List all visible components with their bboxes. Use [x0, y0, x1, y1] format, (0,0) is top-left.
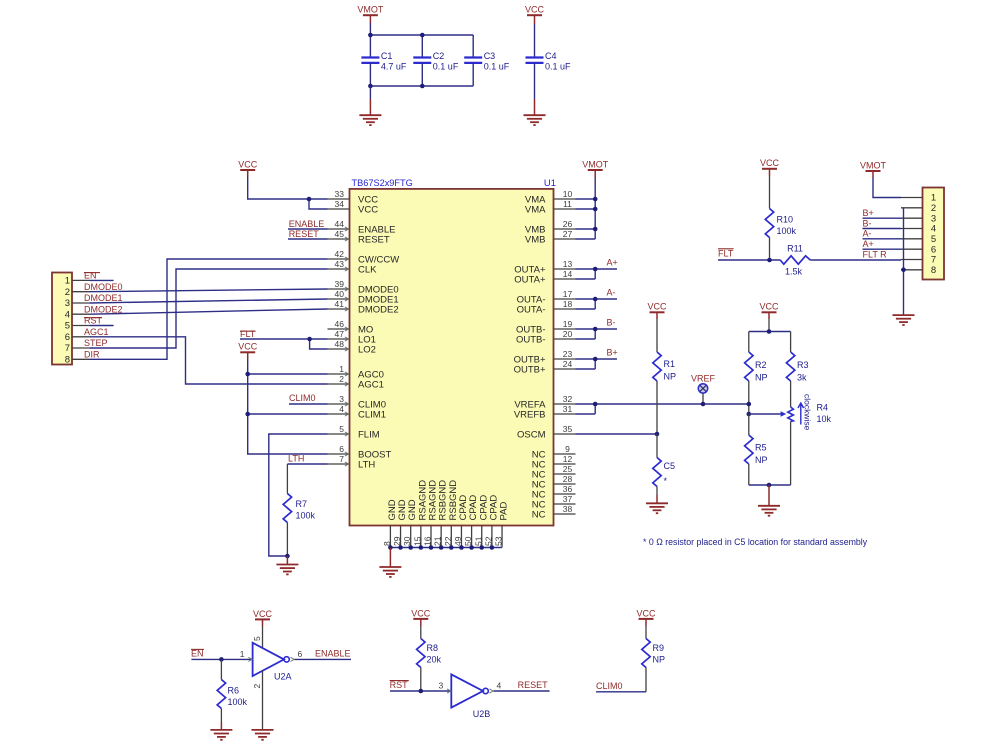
net label ENABLE at pin 44 [288, 219, 328, 229]
junction top rail at C2 [420, 33, 425, 38]
svg-text:33: 33 [335, 189, 345, 199]
ground below motor connector [893, 315, 915, 325]
svg-text:EN: EN [191, 648, 204, 658]
svg-text:3: 3 [65, 298, 70, 309]
svg-text:48: 48 [335, 339, 345, 349]
net label A+ wires OUTA+ pins 13/14 [576, 258, 618, 279]
svg-text:18: 18 [563, 299, 573, 309]
svg-text:5: 5 [252, 636, 262, 641]
net label FLT R motor pin 7 [863, 249, 888, 259]
svg-text:FLT: FLT [718, 248, 734, 258]
net label RST with wire (header pin 5) [84, 316, 114, 326]
svg-text:R6: R6 [228, 686, 240, 696]
net label FLT with wire to pins 47/48 [240, 329, 328, 349]
power flag VCC (U2A) [253, 609, 273, 620]
svg-text:U2A: U2A [274, 672, 292, 682]
svg-text:RESET: RESET [518, 680, 549, 690]
wire ground bus to ground [389, 548, 391, 568]
junction FLT R10 R11 [767, 258, 772, 263]
junction VCC pins 33/34 [307, 197, 312, 202]
svg-text:53: 53 [494, 536, 504, 546]
junction VREFA pin 32 [593, 402, 598, 407]
ground below U2A [252, 730, 274, 740]
svg-text:AGC1: AGC1 [358, 379, 384, 390]
svg-text:8: 8 [65, 355, 70, 366]
net label RESET at pin 45 [288, 229, 328, 239]
power flag VCC (AGC0/CLIM1/BOOST) [238, 342, 258, 353]
svg-text:RST: RST [84, 316, 103, 326]
svg-text:U1: U1 [544, 178, 556, 189]
svg-text:6: 6 [298, 649, 303, 659]
junction FLT pins 47/48 [307, 337, 312, 342]
svg-text:20k: 20k [427, 654, 442, 664]
net flag VREF [691, 373, 716, 404]
svg-text:3: 3 [339, 394, 344, 404]
svg-text:45: 45 [335, 229, 345, 239]
junction VMB pin 26 [593, 227, 598, 232]
svg-text:*: * [664, 476, 668, 486]
junction R2 wiper net [747, 412, 752, 417]
net label RST with wire to U2B input [390, 680, 452, 691]
svg-text:15: 15 [412, 536, 422, 546]
resistor R10 100k [765, 169, 796, 260]
svg-text:B+: B+ [607, 348, 618, 358]
svg-text:38: 38 [563, 504, 573, 514]
junction bottom rail at C1 [368, 84, 373, 89]
resistor R9 NP [642, 619, 665, 692]
svg-text:49: 49 [453, 536, 463, 546]
svg-text:R5: R5 [755, 443, 767, 453]
power flag VCC (top) [525, 5, 545, 16]
svg-text:CLIM0: CLIM0 [289, 393, 316, 403]
svg-text:LTH: LTH [288, 454, 304, 464]
wire motor pin 2 to ground net [903, 208, 905, 315]
svg-text:R4: R4 [817, 403, 829, 413]
svg-text:R1: R1 [664, 359, 676, 369]
junction VCC AGC0 [245, 372, 250, 377]
junction top rail at C1 [368, 33, 373, 38]
IC U1 TB67S2x9FTG body [350, 178, 557, 526]
svg-text:42: 42 [335, 249, 345, 259]
svg-text:FLT R: FLT R [863, 249, 888, 259]
svg-text:0.1 uF: 0.1 uF [484, 61, 510, 71]
wire U2A pin 2 to ground [252, 671, 263, 730]
ground below R6 [210, 730, 232, 740]
resistor R1 NP (VCC to OSCM) [653, 312, 676, 434]
svg-text:46: 46 [335, 319, 345, 329]
svg-text:A+: A+ [863, 239, 874, 249]
svg-text:CLIM0: CLIM0 [596, 681, 623, 691]
svg-text:VMA: VMA [525, 204, 546, 215]
svg-text:6: 6 [65, 332, 70, 343]
wire OSCM pin 35 [576, 433, 658, 435]
junction VCC CLIM1 [245, 412, 250, 417]
svg-text:2: 2 [339, 374, 344, 384]
svg-text:43: 43 [335, 259, 345, 269]
svg-text:OSCM: OSCM [517, 429, 546, 440]
svg-text:EN: EN [84, 271, 97, 281]
svg-text:A+: A+ [607, 258, 618, 268]
net label A- motor pin 5 [863, 229, 902, 239]
svg-text:* 0 Ω resistor placed in C5 lo: * 0 Ω resistor placed in C5 location for… [643, 537, 868, 547]
note 0 ohm resistor [643, 537, 868, 547]
svg-text:RST: RST [390, 680, 409, 690]
junction VREF on net [701, 402, 706, 407]
svg-text:41: 41 [335, 299, 345, 309]
resistor R5 NP [745, 414, 768, 485]
svg-text:RESET: RESET [358, 234, 390, 245]
svg-text:FLIM: FLIM [358, 429, 380, 440]
net label B+ wires OUTB+ pins 23/24 [576, 348, 618, 369]
svg-text:32: 32 [563, 394, 573, 404]
svg-text:52: 52 [483, 536, 493, 546]
svg-text:A-: A- [863, 229, 872, 239]
svg-text:100k: 100k [296, 511, 316, 521]
svg-text:0.1 uF: 0.1 uF [433, 61, 459, 71]
svg-text:clockwise: clockwise [803, 394, 813, 431]
net label EN with wire to U2A input [191, 648, 253, 659]
power flag VCC (IC pins 33/34) [238, 159, 258, 170]
svg-text:VREF: VREF [691, 373, 716, 383]
net label CLIM0 at pin 3 [289, 393, 328, 404]
power flag VCC (R10 pullup) [760, 158, 780, 169]
net label A- wires OUTA- pins 17/18 [576, 288, 618, 309]
svg-text:B+: B+ [863, 208, 874, 218]
svg-text:2: 2 [65, 287, 70, 298]
svg-text:VCC: VCC [647, 302, 667, 312]
ground below R7 [276, 565, 298, 575]
svg-text:21: 21 [433, 536, 443, 546]
svg-text:51: 51 [473, 536, 483, 546]
svg-text:DIR: DIR [84, 350, 100, 360]
wire IC ground bus [388, 545, 502, 550]
svg-text:3k: 3k [797, 373, 807, 383]
wire FLIM to ground net [269, 434, 328, 556]
IC U1 right pins [514, 189, 576, 520]
svg-text:DMODE1: DMODE1 [84, 293, 123, 303]
svg-text:24: 24 [563, 359, 573, 369]
resistor R11 1.5k [780, 244, 810, 277]
capacitor C3 [464, 51, 510, 71]
svg-text:50: 50 [463, 536, 473, 546]
svg-text:2: 2 [931, 203, 936, 214]
svg-text:OUTB-: OUTB- [516, 334, 546, 345]
connector pins [52, 273, 90, 366]
svg-text:NC: NC [532, 509, 546, 520]
svg-text:5: 5 [339, 424, 344, 434]
svg-text:C5: C5 [664, 461, 676, 471]
svg-text:12: 12 [563, 454, 573, 464]
svg-text:14: 14 [563, 269, 573, 279]
junction divider top rail [767, 329, 772, 334]
wire VCC to pins 33/34 [248, 170, 328, 209]
net label CLIM0 with wire to R9 [596, 681, 646, 692]
svg-text:VCC: VCC [238, 159, 258, 169]
junction VMA pin 11 [593, 207, 598, 212]
wire DMODE2 header pin 4 to IC pin 41 [84, 304, 328, 314]
svg-text:R2: R2 [755, 360, 767, 370]
wire VCC to C4 [534, 15, 536, 57]
svg-text:22: 22 [443, 536, 453, 546]
wire DMODE0 header pin 2 to IC pin 39 [84, 282, 328, 292]
wire VCC to AGC0 CLIM1 BOOST pins [248, 352, 328, 454]
ground below C1 [359, 115, 381, 125]
junction RST R8 [419, 689, 424, 694]
svg-text:4: 4 [65, 309, 70, 320]
svg-text:VCC: VCC [525, 5, 545, 15]
svg-text:35: 35 [563, 424, 573, 434]
svg-text:13: 13 [563, 259, 573, 269]
svg-text:1.5k: 1.5k [785, 266, 803, 276]
resistor R2 NP [745, 332, 768, 415]
svg-text:VREFB: VREFB [514, 409, 546, 420]
svg-text:100k: 100k [777, 226, 797, 236]
svg-text:B-: B- [863, 218, 872, 228]
svg-text:NP: NP [755, 373, 768, 383]
svg-text:A-: A- [607, 288, 616, 298]
svg-text:C3: C3 [484, 51, 496, 61]
svg-text:VCC: VCC [759, 302, 779, 312]
wire C4 to ground [534, 63, 536, 115]
svg-text:10k: 10k [817, 414, 832, 424]
net label B- wires OUTB- pins 19/20 [576, 318, 618, 339]
wire divider rail to ground [768, 485, 770, 506]
svg-text:NP: NP [664, 372, 677, 382]
wire DMODE1 header pin 3 to IC pin 40 [84, 293, 328, 303]
svg-text:LTH: LTH [358, 459, 375, 470]
wire DIR header pin 8 to IC pin 42 CW/CCW [84, 259, 328, 360]
power flag VCC (R9) [636, 608, 656, 619]
wire bottom capacitor rail [370, 63, 473, 86]
svg-text:19: 19 [563, 319, 573, 329]
resistor R8 20k [417, 619, 442, 691]
svg-text:R8: R8 [427, 643, 439, 653]
wire R11 to motor connector pin 7 FLT_R [810, 259, 901, 261]
svg-text:5: 5 [931, 234, 936, 245]
svg-text:36: 36 [563, 484, 573, 494]
power flag VMOT (top) [357, 5, 384, 16]
resistor C5 (0 ohm location) [653, 434, 675, 503]
svg-text:VCC: VCC [411, 608, 431, 618]
svg-text:C2: C2 [433, 51, 445, 61]
svg-text:29: 29 [392, 536, 402, 546]
power flag VCC (R8) [411, 608, 431, 619]
junction VMA pin 10 [593, 197, 598, 202]
power flag VCC (R1 pullup) [647, 302, 667, 313]
inverter U2A [240, 643, 303, 682]
svg-text:30: 30 [402, 536, 412, 546]
wire U2B output RESET [494, 680, 550, 691]
junction R7 ground [285, 554, 290, 559]
svg-text:OUTA+: OUTA+ [514, 274, 546, 285]
capacitor C2 [413, 51, 459, 71]
svg-text:R11: R11 [787, 244, 803, 254]
svg-text:4: 4 [339, 404, 344, 414]
wire STEP header pin 7 to IC pin 43 CLK [84, 269, 328, 348]
svg-text:40: 40 [335, 289, 345, 299]
svg-text:16: 16 [423, 536, 433, 546]
junction OSCM R1 C5 [655, 432, 660, 437]
svg-text:31: 31 [563, 404, 573, 414]
motor connector 1x8 [901, 188, 944, 280]
wire VCC to divider top rail [749, 312, 791, 331]
svg-text:0.1 uF: 0.1 uF [545, 61, 571, 71]
svg-text:1: 1 [240, 649, 245, 659]
power flag VMOT (VMA/VMB pins) [582, 159, 609, 170]
wire VMOT to motor pin 1 [873, 171, 901, 198]
svg-text:B-: B- [607, 318, 616, 328]
svg-text:26: 26 [563, 219, 573, 229]
wire C1 rail to ground [369, 86, 371, 115]
svg-text:AGC1: AGC1 [84, 327, 109, 337]
junction R2 VREF net [747, 402, 752, 407]
svg-text:VMOT: VMOT [860, 160, 887, 170]
power flag VMOT (motor connector) [860, 160, 887, 171]
wire R7 to ground [286, 556, 288, 565]
svg-text:NP: NP [755, 455, 768, 465]
svg-text:VCC: VCC [238, 342, 258, 352]
svg-text:1: 1 [65, 276, 70, 287]
svg-text:ENABLE: ENABLE [289, 219, 325, 229]
svg-text:VCC: VCC [358, 204, 378, 215]
capacitor C4 [526, 51, 572, 71]
svg-text:3: 3 [438, 681, 443, 691]
svg-text:20: 20 [563, 329, 573, 339]
svg-text:FLT: FLT [240, 329, 256, 339]
svg-text:37: 37 [563, 494, 573, 504]
svg-text:OUTB+: OUTB+ [514, 364, 546, 375]
svg-text:VCC: VCC [760, 158, 780, 168]
IC U1 left pins [328, 189, 400, 470]
svg-text:34: 34 [335, 199, 345, 209]
svg-text:VCC: VCC [253, 609, 273, 619]
svg-text:VMB: VMB [525, 234, 546, 245]
wire VCC to U2A pin 5 [252, 619, 263, 648]
svg-text:VMOT: VMOT [582, 159, 609, 169]
svg-text:C1: C1 [381, 51, 393, 61]
svg-text:R9: R9 [653, 643, 665, 653]
wire top capacitor rail [370, 35, 473, 57]
ground below C4 [524, 115, 546, 125]
capacitor C1 [361, 51, 407, 71]
svg-text:9: 9 [565, 444, 570, 454]
svg-text:5: 5 [65, 321, 70, 332]
svg-text:8: 8 [931, 265, 936, 276]
wire divider bottom rail [749, 484, 791, 486]
potentiometer R4 10k [749, 394, 832, 485]
net label B- motor pin 4 [863, 218, 902, 228]
svg-text:28: 28 [563, 474, 573, 484]
svg-text:4.7 uF: 4.7 uF [381, 61, 407, 71]
svg-text:7: 7 [339, 454, 344, 464]
svg-text:CLK: CLK [358, 264, 377, 275]
resistor R3 3k [786, 332, 808, 408]
svg-text:CLIM1: CLIM1 [358, 409, 386, 420]
wire VREFA/VREFB to divider [576, 404, 749, 414]
svg-text:27: 27 [563, 229, 573, 239]
svg-text:OUTA-: OUTA- [517, 304, 546, 315]
svg-text:TB67S2x9FTG: TB67S2x9FTG [352, 178, 413, 188]
net label LTH with wire (pin 7) [287, 454, 327, 465]
net label A+ motor pin 6 [863, 239, 902, 249]
wire VMOT to capacitor rail [369, 15, 371, 35]
junction divider bottom rail [767, 483, 772, 488]
svg-text:4: 4 [497, 681, 502, 691]
wire AGC1 header pin 6 to IC pin 2 [84, 327, 328, 384]
svg-text:R7: R7 [296, 499, 308, 509]
svg-text:U2B: U2B [473, 709, 491, 719]
svg-text:2: 2 [252, 684, 262, 689]
svg-text:23: 23 [563, 349, 573, 359]
resistor R7 100k [283, 464, 315, 556]
svg-text:1: 1 [339, 364, 344, 374]
svg-text:DMODE2: DMODE2 [84, 304, 123, 314]
svg-text:10: 10 [563, 189, 573, 199]
svg-text:PAD: PAD [499, 502, 510, 521]
junction EN R6 [219, 657, 224, 662]
svg-text:DMODE0: DMODE0 [84, 282, 123, 292]
net label B+ motor pin 3 [863, 208, 902, 218]
svg-text:17: 17 [563, 289, 573, 299]
svg-text:VCC: VCC [636, 608, 656, 618]
svg-text:44: 44 [335, 219, 345, 229]
svg-text:NP: NP [653, 654, 666, 664]
svg-text:100k: 100k [228, 697, 248, 707]
svg-text:25: 25 [563, 464, 573, 474]
svg-text:6: 6 [339, 444, 344, 454]
svg-text:R10: R10 [777, 215, 794, 225]
junction motor pin 8 ground [901, 268, 906, 273]
ground below IC [379, 567, 401, 577]
svg-text:R3: R3 [797, 360, 809, 370]
power flag VCC (VREF divider) [759, 302, 779, 313]
svg-text:RESET: RESET [289, 229, 320, 239]
IC U1 bottom pins [382, 480, 510, 548]
svg-text:ENABLE: ENABLE [315, 649, 351, 659]
resistor R6 100k [217, 659, 247, 730]
junction bottom rail at C2 [420, 84, 425, 89]
svg-text:VMOT: VMOT [357, 5, 384, 15]
svg-text:LO2: LO2 [358, 344, 376, 355]
ground below divider [758, 506, 780, 516]
svg-text:11: 11 [563, 199, 572, 209]
svg-text:DMODE2: DMODE2 [358, 304, 399, 315]
inverter U2B [438, 674, 501, 719]
net label FLT with wire to R10/R11 [718, 248, 780, 260]
svg-text:47: 47 [335, 329, 345, 339]
svg-text:39: 39 [335, 279, 345, 289]
ground below C5 [646, 503, 668, 513]
svg-text:STEP: STEP [84, 338, 108, 348]
wire U2A output ENABLE [295, 649, 352, 660]
net label EN with wire (header pin 1) [84, 271, 114, 281]
svg-text:C4: C4 [545, 51, 557, 61]
wire VMOT to VMA VMB pins [576, 170, 596, 239]
svg-text:7: 7 [65, 343, 70, 354]
